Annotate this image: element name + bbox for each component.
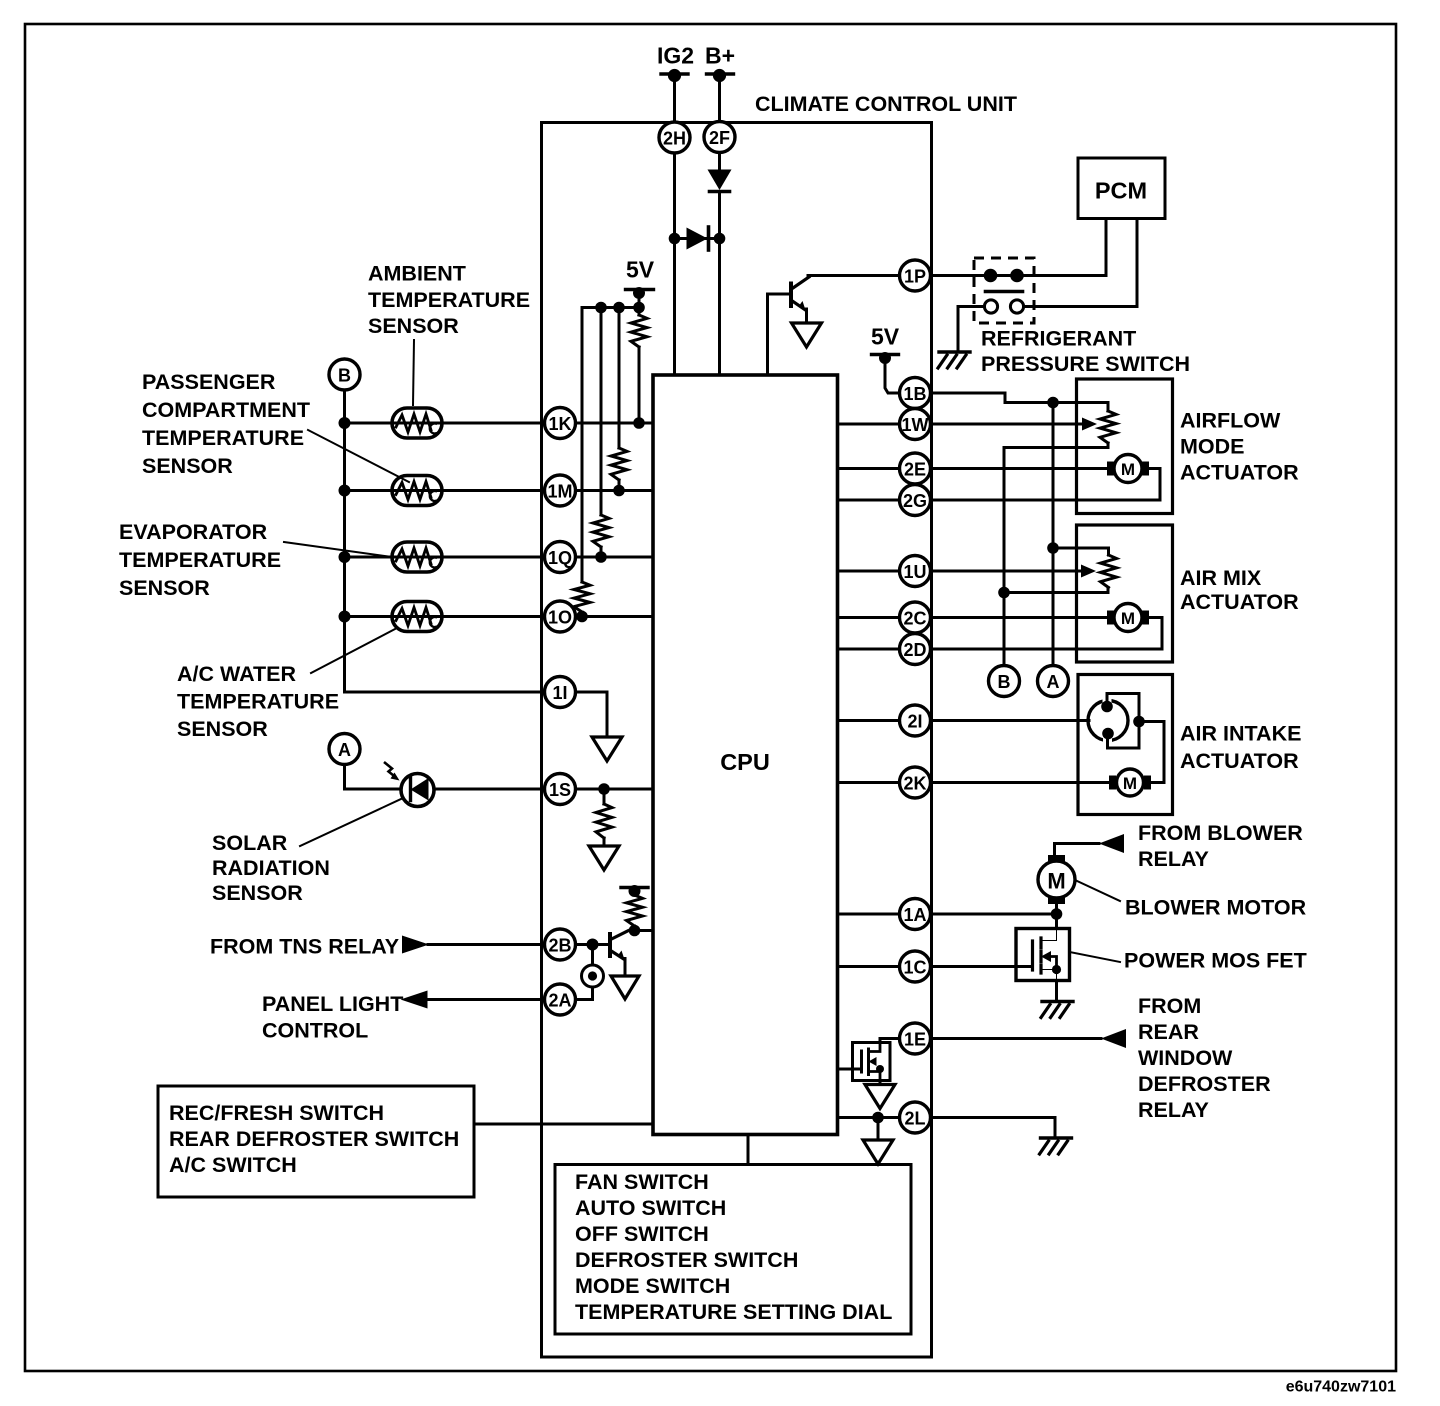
svg-text:1A: 1A [903,905,926,925]
resistor R5 (1S load) [596,804,612,838]
label air intake actuator [1180,722,1301,774]
wire B+ to pin 2F [718,76,721,122]
resistor R8 (airmix position) [1101,555,1117,588]
wire 2B to Q2 base [576,943,610,946]
pin 2E [900,453,931,484]
svg-text:2D: 2D [903,640,926,660]
evaporator temperature sensor TH3 [392,542,442,572]
wire R5 top lead [603,789,606,804]
wire 1A to FET Q3 [1055,914,1058,929]
pin 1O [545,601,576,632]
transistor Q1 (NPN) [791,277,809,310]
wire 1P to pressure switch [931,274,986,277]
A/C water temperature sensor TH4 [392,602,442,632]
junction bus/639 [633,302,645,314]
pin 1P [900,260,931,291]
wire A line [1052,403,1055,666]
wire CPU to 1C [838,965,900,968]
pin 1E [900,1023,931,1054]
junction 1A/blower [1051,908,1063,920]
ground Q1 emitter [792,323,822,347]
svg-text:CONTROL: CONTROL [262,1019,368,1043]
label from blower relay [1138,821,1303,871]
svg-text:B: B [998,672,1011,692]
svg-text:SENSOR: SENSOR [368,314,459,338]
svg-text:A: A [338,740,351,760]
svg-text:BLOWER MOTOR: BLOWER MOTOR [1125,896,1307,920]
motor M2 (air mix) [1107,604,1149,632]
wire R4 top lead [581,308,584,583]
wire 2G to motor M1 right [931,469,1161,501]
refrigerant pressure switch SW1 (dashed outline) [974,258,1034,323]
svg-text:SENSOR: SENSOR [142,454,233,478]
junction B bus/1Q row [339,551,351,563]
junction B bus/1O row [339,611,351,623]
pin 1C [900,951,931,982]
wire CPU to 1A [838,913,900,916]
wire R1 top lead [638,308,641,316]
arrow 1U wiper [1081,565,1096,578]
svg-text:DEFROSTER: DEFROSTER [1138,1072,1271,1096]
wire 5V to 1B [885,358,900,393]
REC/FRESH switch group box [158,1086,474,1197]
label passenger compartment temperature sensor [142,370,310,478]
svg-text:2I: 2I [907,712,922,732]
svg-text:B+: B+ [705,43,735,69]
wire 1Q row to CPU [576,556,654,559]
svg-text:MODE SWITCH: MODE SWITCH [575,1274,730,1298]
svg-text:1W: 1W [902,415,929,435]
svg-text:1I: 1I [552,683,567,703]
node A (left) [329,734,360,765]
svg-text:IG2: IG2 [657,43,694,69]
wire Q4 source down [879,1081,882,1085]
svg-text:AMBIENT: AMBIENT [368,262,466,286]
wire 2D to motor M2 right [931,618,1163,650]
wire 1U wiper [931,570,1084,573]
pin 1A [900,899,931,930]
leader ambient sensor [413,340,414,405]
arrow from TNS relay [402,936,429,954]
wire CPU to 2C [838,616,900,619]
wire Q2 emitter down [624,959,627,977]
leader power MOS FET [1070,952,1121,962]
wire 1K row to CPU [576,422,654,425]
motor M3 (air intake) [1109,769,1151,796]
arrow from rear window defroster relay [1101,1029,1126,1048]
junction R2/1M row [613,485,625,497]
svg-text:AUTO SWITCH: AUTO SWITCH [575,1196,726,1220]
svg-text:AIR INTAKE: AIR INTAKE [1180,722,1301,746]
wire CPU to 2I [838,719,900,722]
svg-text:AIR MIX: AIR MIX [1180,566,1262,590]
FAN switch group box [555,1165,911,1335]
wire blower motor to 1A [1055,904,1058,914]
terminal 5V pull-up [626,287,654,299]
wire IG2 to pin 2H [673,76,676,122]
svg-text:FROM: FROM [1138,994,1201,1018]
resistor R4 (1O pull-up) [574,582,590,612]
wire 2I to position switch [931,719,1090,722]
wire R6 top lead [633,891,636,895]
wire TNS to 2B [428,943,545,946]
wire CPU to 2E [838,467,900,470]
svg-text:WINDOW: WINDOW [1138,1046,1233,1070]
svg-text:2B: 2B [548,936,571,956]
svg-text:2E: 2E [904,460,926,480]
switch contacts (closed, top) [984,269,1024,283]
label fan switch group [575,1170,892,1324]
svg-text:TEMPERATURE SETTING DIAL: TEMPERATURE SETTING DIAL [575,1300,892,1324]
svg-text:PRESSURE SWITCH: PRESSURE SWITCH [981,352,1190,376]
svg-text:1K: 1K [548,414,571,434]
wire 2E to motor M1 [931,467,1109,470]
pin 1S [545,774,576,805]
wire CPU to 2D [838,648,900,651]
wire 1S to CPU [576,788,654,791]
wire solar to 1S [434,788,545,791]
pin 1K [545,408,576,439]
wire CPU to 1W [838,423,900,426]
svg-text:SOLAR: SOLAR [212,831,288,855]
svg-text:TEMPERATURE: TEMPERATURE [177,690,339,714]
node A (right) [1038,666,1069,697]
label solar radiation sensor [212,831,330,905]
wire 1K row [345,422,545,425]
wire blower relay feed [1055,844,1100,856]
leader passenger sensor [308,430,409,482]
wire R1 to 1K row [638,347,641,423]
svg-text:2A: 2A [548,991,571,1011]
label ambient temperature sensor [368,262,530,339]
svg-text:RELAY: RELAY [1138,847,1209,871]
ground Q2 emitter [611,976,639,999]
CPU U1 box [653,375,838,1135]
terminal B+ [707,69,734,82]
junction A line top [1047,397,1059,409]
label rec/fresh switch group [169,1101,459,1177]
pin 1W [900,409,931,440]
wire Q1 emitter down [805,309,808,323]
svg-text:1E: 1E [904,1030,926,1050]
svg-text:PCM: PCM [1095,178,1147,204]
junction bus/601 [595,302,607,314]
svg-text:5V: 5V [626,257,655,283]
svg-text:ACTUATOR: ACTUATOR [1180,749,1299,773]
junction 2B/lamp [587,939,599,951]
wire A to 1S row [345,765,400,790]
svg-text:M: M [1121,609,1135,628]
svg-text:1Q: 1Q [548,548,572,568]
junction A line/airmix [1047,542,1059,554]
motor M1 (airflow mode) [1107,455,1149,483]
ground R5 [589,846,619,870]
junction intake switch output [1133,716,1145,728]
wire R4 to 1O row [581,612,584,617]
svg-text:FROM BLOWER: FROM BLOWER [1138,821,1303,845]
svg-text:SENSOR: SENSOR [177,717,268,741]
blower motor M4 [1038,855,1075,904]
wire 1O row to CPU [576,615,654,618]
svg-text:CLIMATE CONTROL UNIT: CLIMATE CONTROL UNIT [755,92,1017,116]
power MOS FET Q3 box [1016,929,1070,981]
junction Q2 collector [629,925,641,937]
passenger compartment temperature sensor TH2 [392,476,442,506]
wire 1B to airflow resistor top [931,393,1109,411]
leader evaporator sensor [284,542,392,557]
wire CPU to fan switch group [747,1135,750,1165]
pin 1M [545,475,576,506]
svg-text:2F: 2F [709,128,730,148]
svg-text:1B: 1B [903,384,926,404]
wire 1E to FET Q4 [880,1039,900,1043]
svg-text:EVAPORATOR: EVAPORATOR [119,520,268,544]
svg-text:CPU: CPU [720,749,770,775]
wire switch group to CPU [474,1123,653,1126]
svg-text:M: M [1047,869,1065,894]
wire R6 to Q2 collector [633,926,636,931]
wire 2F diode branch lower [718,192,721,376]
diode D1 (from 2F, cathode down) [708,170,732,192]
svg-text:REAR DEFROSTER SWITCH: REAR DEFROSTER SWITCH [169,1127,459,1151]
chassis ground (2L) [1040,1138,1072,1154]
svg-text:TEMPERATURE: TEMPERATURE [368,288,530,312]
PCM box [1078,158,1165,219]
wire switch top to PCM [1024,219,1106,276]
svg-text:ACTUATOR: ACTUATOR [1180,461,1299,485]
svg-text:A: A [1047,672,1060,692]
pin 2K [900,767,931,798]
svg-text:1M: 1M [547,482,572,502]
junction R1/1K row [633,417,645,429]
junction R4/1O row [576,611,588,623]
wire 2L ground lead [877,1118,880,1141]
wire 5V to bus [638,293,641,308]
wire airflow resistor bottom to B line [1004,443,1108,666]
wire airmix resistor bottom to B line [1004,588,1108,593]
ground 2L (internal) [863,1140,893,1164]
svg-text:1P: 1P [904,267,926,287]
leader A/C water sensor [311,628,397,673]
leader solar sensor [300,799,401,846]
diode D2 (horizontal, cathode right) [687,227,709,250]
airflow mode actuator box [1077,379,1173,514]
MOSFET Q3 symbol [1033,929,1062,981]
label A/C water temperature sensor [177,662,339,741]
wire 2F diode branch upper [718,153,721,170]
junction 1S/R5 [598,783,610,795]
svg-text:OFF SWITCH: OFF SWITCH [575,1222,709,1246]
wire 1M row to CPU [576,489,654,492]
arrow 1W wiper [1082,418,1097,431]
wire 2H to CPU [673,153,676,375]
chassis ground (Q3) [1041,1002,1073,1018]
wire 1A row [931,913,1057,916]
svg-text:1C: 1C [903,958,926,978]
wire 1Q row [345,556,545,559]
wire between 2H and 2F lines [675,237,720,240]
wire Q1 collector to 1P [808,274,900,277]
svg-text:1U: 1U [903,562,926,582]
label refrigerant pressure switch [981,327,1190,377]
svg-text:2C: 2C [903,609,926,629]
junction bus/619 [613,302,625,314]
wire R3 top lead [600,308,603,516]
svg-text:e6u740zw7101: e6u740zw7101 [1286,1379,1396,1396]
label airflow mode actuator [1180,409,1299,485]
wire pull-up bus [582,308,639,310]
svg-text:REC/FRESH SWITCH: REC/FRESH SWITCH [169,1101,384,1125]
wire 1E to arrow [931,1037,1102,1040]
wire Q2 collector to CPU [635,929,654,932]
ambient temperature sensor TH1 [392,408,442,438]
pin 1U [900,556,931,587]
svg-text:TEMPERATURE: TEMPERATURE [119,548,281,572]
svg-text:1S: 1S [549,780,571,800]
wire 1W wiper [931,423,1085,426]
svg-text:2L: 2L [904,1109,925,1129]
wire 1O row [345,615,545,618]
svg-text:TEMPERATURE: TEMPERATURE [142,426,304,450]
junction 2H/diode [669,233,681,245]
wire R5 bottom lead [603,838,606,846]
svg-text:M: M [1121,460,1135,479]
air intake actuator box [1078,675,1173,815]
svg-text:RADIATION: RADIATION [212,856,330,880]
wire R3 to 1Q row [600,547,603,557]
svg-text:DEFROSTER SWITCH: DEFROSTER SWITCH [575,1248,798,1272]
ground Q4 [865,1085,895,1109]
svg-text:A/C SWITCH: A/C SWITCH [169,1153,297,1177]
pin 2I [900,705,931,736]
solar radiation sensor D3 (photodiode) [384,762,434,807]
wire B bus [343,390,346,692]
label air mix actuator [1180,566,1299,614]
climate control unit box [542,123,932,1358]
junction R3/1Q row [595,551,607,563]
ground 1I [592,737,622,761]
svg-text:SENSOR: SENSOR [212,881,303,905]
wire 1M row [345,489,545,492]
wire CPU to 2K [838,781,900,784]
wire 2L to chassis ground [931,1118,1056,1138]
svg-text:A/C WATER: A/C WATER [177,662,297,686]
air intake position switch [1088,694,1139,749]
resistor R7 (airflow position) [1100,411,1116,443]
leader blower motor [1075,880,1120,901]
wire 1C to Q3 gate [931,965,1033,968]
svg-text:RELAY: RELAY [1138,1098,1209,1122]
arrow from blower relay [1099,834,1124,853]
svg-text:ACTUATOR: ACTUATOR [1180,590,1299,614]
wire CPU to 1U [838,570,900,573]
svg-text:POWER MOS FET: POWER MOS FET [1124,949,1307,973]
wire Q3 source down [1055,981,1058,1002]
resistor R3 (1Q pull-up) [593,515,609,547]
switch contacts (open, bottom) [984,300,1023,313]
wire CPU to 2L [838,1116,900,1119]
svg-text:1O: 1O [548,608,572,628]
wire intake switch to motor M3 [1139,722,1164,783]
junction 2F/diode [714,233,726,245]
svg-text:2H: 2H [663,129,686,149]
resistor R1 (1K pull-up) [631,315,647,347]
svg-text:2K: 2K [903,774,926,794]
node B (right) [989,666,1020,697]
svg-text:B: B [338,366,351,386]
pin 1B [900,378,931,409]
pin 1Q [545,542,576,573]
label evaporator temperature sensor [119,520,281,600]
pin 1I [545,677,576,708]
svg-text:PASSENGER: PASSENGER [142,370,276,394]
wire 2C to motor M2 [931,616,1109,619]
MOSFET Q4 symbol [862,1043,885,1081]
wire R2 to 1M row [618,480,621,491]
svg-text:COMPARTMENT: COMPARTMENT [142,398,310,422]
wire CPU to Q1 base [768,294,792,375]
pin 2A [545,984,576,1015]
switch actuator bar [986,290,1023,294]
pin 2H [659,122,690,153]
wire 2A to arrow [427,998,545,1001]
pin 2G [900,485,931,516]
svg-text:REAR: REAR [1138,1020,1199,1044]
terminal supply (panel light) [621,885,648,897]
lamp L1 (panel illumination) [576,945,604,1000]
svg-text:MODE: MODE [1180,435,1245,459]
junction B bus/1M row [339,485,351,497]
svg-text:PANEL LIGHT: PANEL LIGHT [262,992,403,1016]
svg-text:AIRFLOW: AIRFLOW [1180,409,1281,433]
air mix actuator box [1077,525,1173,662]
wire R2 top lead [618,308,621,449]
junction 2L/ground [872,1112,884,1124]
arrow panel light control [401,991,428,1009]
pin 2D [900,634,931,665]
pin 2B [545,929,576,960]
wire 1I to ground [576,692,608,737]
svg-text:2G: 2G [903,491,927,511]
svg-text:FROM TNS RELAY: FROM TNS RELAY [210,935,399,959]
svg-text:M: M [1123,774,1137,793]
node B (left) [329,359,360,390]
wire CPU to Q4 gate [838,1068,862,1071]
chassis ground (pressure switch) [938,352,970,368]
junction B bus/1K row [339,417,351,429]
FET Q4 box [853,1043,891,1081]
svg-text:FAN SWITCH: FAN SWITCH [575,1170,709,1194]
wire B bus to 1I [345,691,545,694]
wire 2K to motor M3 [931,781,1111,784]
wire airmix resistor top [1053,548,1109,555]
pin 2F [704,122,735,153]
wire CPU to 2G [838,499,900,502]
pin 2C [900,602,931,633]
svg-text:5V: 5V [871,324,900,350]
svg-text:SENSOR: SENSOR [119,576,210,600]
terminal 5V 1B [872,352,899,364]
transistor Q2 (NPN) [610,931,628,960]
junction B line/airmix [998,587,1010,599]
resistor R6 (panel light) [627,895,643,926]
resistor R2 (1M pull-up) [611,448,627,480]
label from rear window defroster relay [1138,994,1271,1122]
svg-text:REFRIGERANT: REFRIGERANT [981,327,1136,351]
terminal IG2 [661,69,688,82]
wire switch bottom to PCM [1024,219,1138,307]
pin 2L [900,1102,931,1133]
